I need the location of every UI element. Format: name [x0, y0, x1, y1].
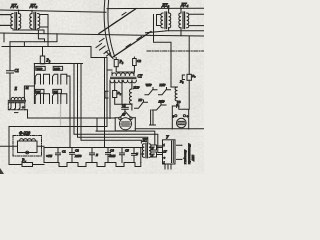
svg-text:ЗГ: ЗГ: [122, 113, 125, 117]
svg-text:С2: С2: [75, 149, 79, 153]
svg-text:КИ: КИ: [53, 90, 59, 94]
svg-text:Б: Б: [95, 153, 98, 157]
svg-text:ДТ2: ДТ2: [29, 3, 37, 9]
svg-text:ДТ1: ДТ1: [10, 3, 18, 9]
svg-text:2150: 2150: [75, 154, 82, 158]
svg-text:У: У: [166, 136, 169, 140]
svg-text:С1: С1: [62, 150, 66, 154]
svg-text:КИР: КИР: [159, 83, 166, 87]
svg-text:КР: КР: [138, 98, 143, 102]
svg-text:С1: С1: [15, 69, 20, 73]
svg-text:×7Б: ×7Б: [46, 154, 52, 158]
svg-text:+: +: [186, 114, 188, 118]
svg-text:2': 2': [152, 146, 155, 150]
svg-text:С4: С4: [110, 149, 114, 153]
svg-text:Б: Б: [135, 152, 138, 156]
svg-text:1Г: 1Г: [163, 150, 167, 154]
svg-text:1': 1': [152, 153, 155, 157]
svg-text:ДТ3: ДТ3: [161, 3, 169, 9]
svg-text:С5: С5: [125, 149, 129, 153]
svg-text:АЛС: АЛС: [191, 154, 195, 162]
svg-text:+: +: [163, 156, 165, 160]
svg-text:ИТ: ИТ: [142, 139, 149, 143]
svg-text:ИСР: ИСР: [133, 86, 140, 90]
svg-text:ЧКР: ЧКР: [37, 67, 43, 71]
svg-text:Ф-220: Ф-220: [19, 130, 31, 135]
svg-text:4085: 4085: [109, 154, 116, 158]
svg-text:ЧИР: ЧИР: [146, 83, 152, 87]
svg-text:С2: С2: [122, 103, 126, 107]
svg-text:ДТ4: ДТ4: [180, 2, 188, 8]
svg-text:С2: С2: [137, 59, 141, 63]
svg-text:КИР: КИР: [53, 67, 60, 71]
